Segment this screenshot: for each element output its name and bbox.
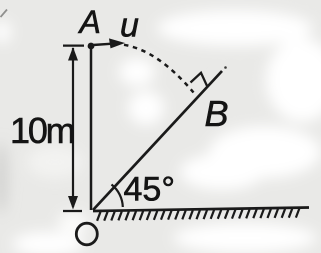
svg-text:u: u [120, 7, 139, 45]
trajectory dashed curve [124, 45, 194, 93]
stray pen mark top-left corner [1, 10, 8, 18]
svg-text:A: A [78, 4, 101, 40]
right angle mark at B [191, 73, 208, 87]
incline line [93, 71, 222, 210]
wire vertical line A to O [90, 46, 93, 210]
dimension arrowhead up [68, 47, 78, 61]
angle arc 45 [112, 185, 123, 208]
ground hatching [97, 209, 299, 221]
svg-text:B: B [205, 93, 229, 134]
svg-text:10m: 10m [10, 110, 74, 151]
node A point [88, 43, 95, 50]
node O circle label [76, 223, 97, 245]
velocity arrow u [93, 38, 125, 48]
dimension line 10m [63, 46, 84, 211]
ground line [93, 208, 309, 212]
svg-text:45°: 45° [124, 171, 175, 209]
ink speck near incline end [224, 66, 227, 69]
dimension arrowhead down [68, 196, 78, 210]
